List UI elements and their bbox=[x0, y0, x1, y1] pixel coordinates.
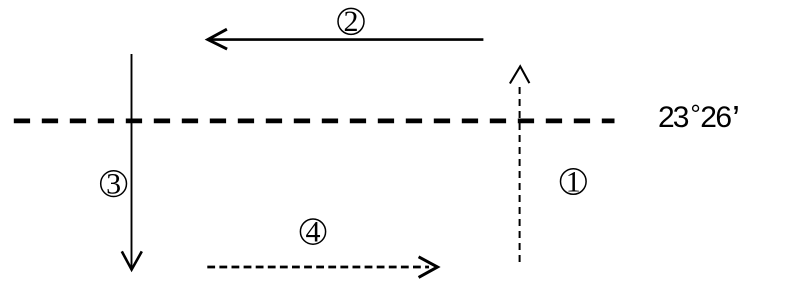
svg-text:°: ° bbox=[690, 99, 700, 129]
svg-text:’: ’ bbox=[732, 98, 740, 139]
svg-text:2: 2 bbox=[344, 5, 359, 38]
arrowhead 3 (points down) bbox=[122, 251, 142, 269]
tropic of cancer dashed line bbox=[14, 119, 615, 124]
wire arrow 1 dashed shaft bbox=[519, 87, 521, 264]
wire arrow 2 shaft bbox=[209, 38, 483, 41]
node label circled 2 bbox=[338, 5, 364, 38]
wire arrow 3 shaft bbox=[131, 54, 133, 268]
arrowhead 4 (points right) bbox=[419, 257, 438, 278]
node label circled 3 bbox=[101, 167, 127, 200]
svg-text:3: 3 bbox=[106, 167, 121, 200]
arrowhead 2 (points left) bbox=[208, 29, 227, 49]
arrowhead 1 (points up) bbox=[510, 66, 530, 83]
svg-text:4: 4 bbox=[306, 215, 321, 248]
node label circled 1 bbox=[561, 165, 587, 198]
node label circled 4 bbox=[300, 215, 325, 248]
wire arrow 4 dashed shaft bbox=[207, 266, 429, 269]
svg-text:1: 1 bbox=[566, 165, 581, 198]
